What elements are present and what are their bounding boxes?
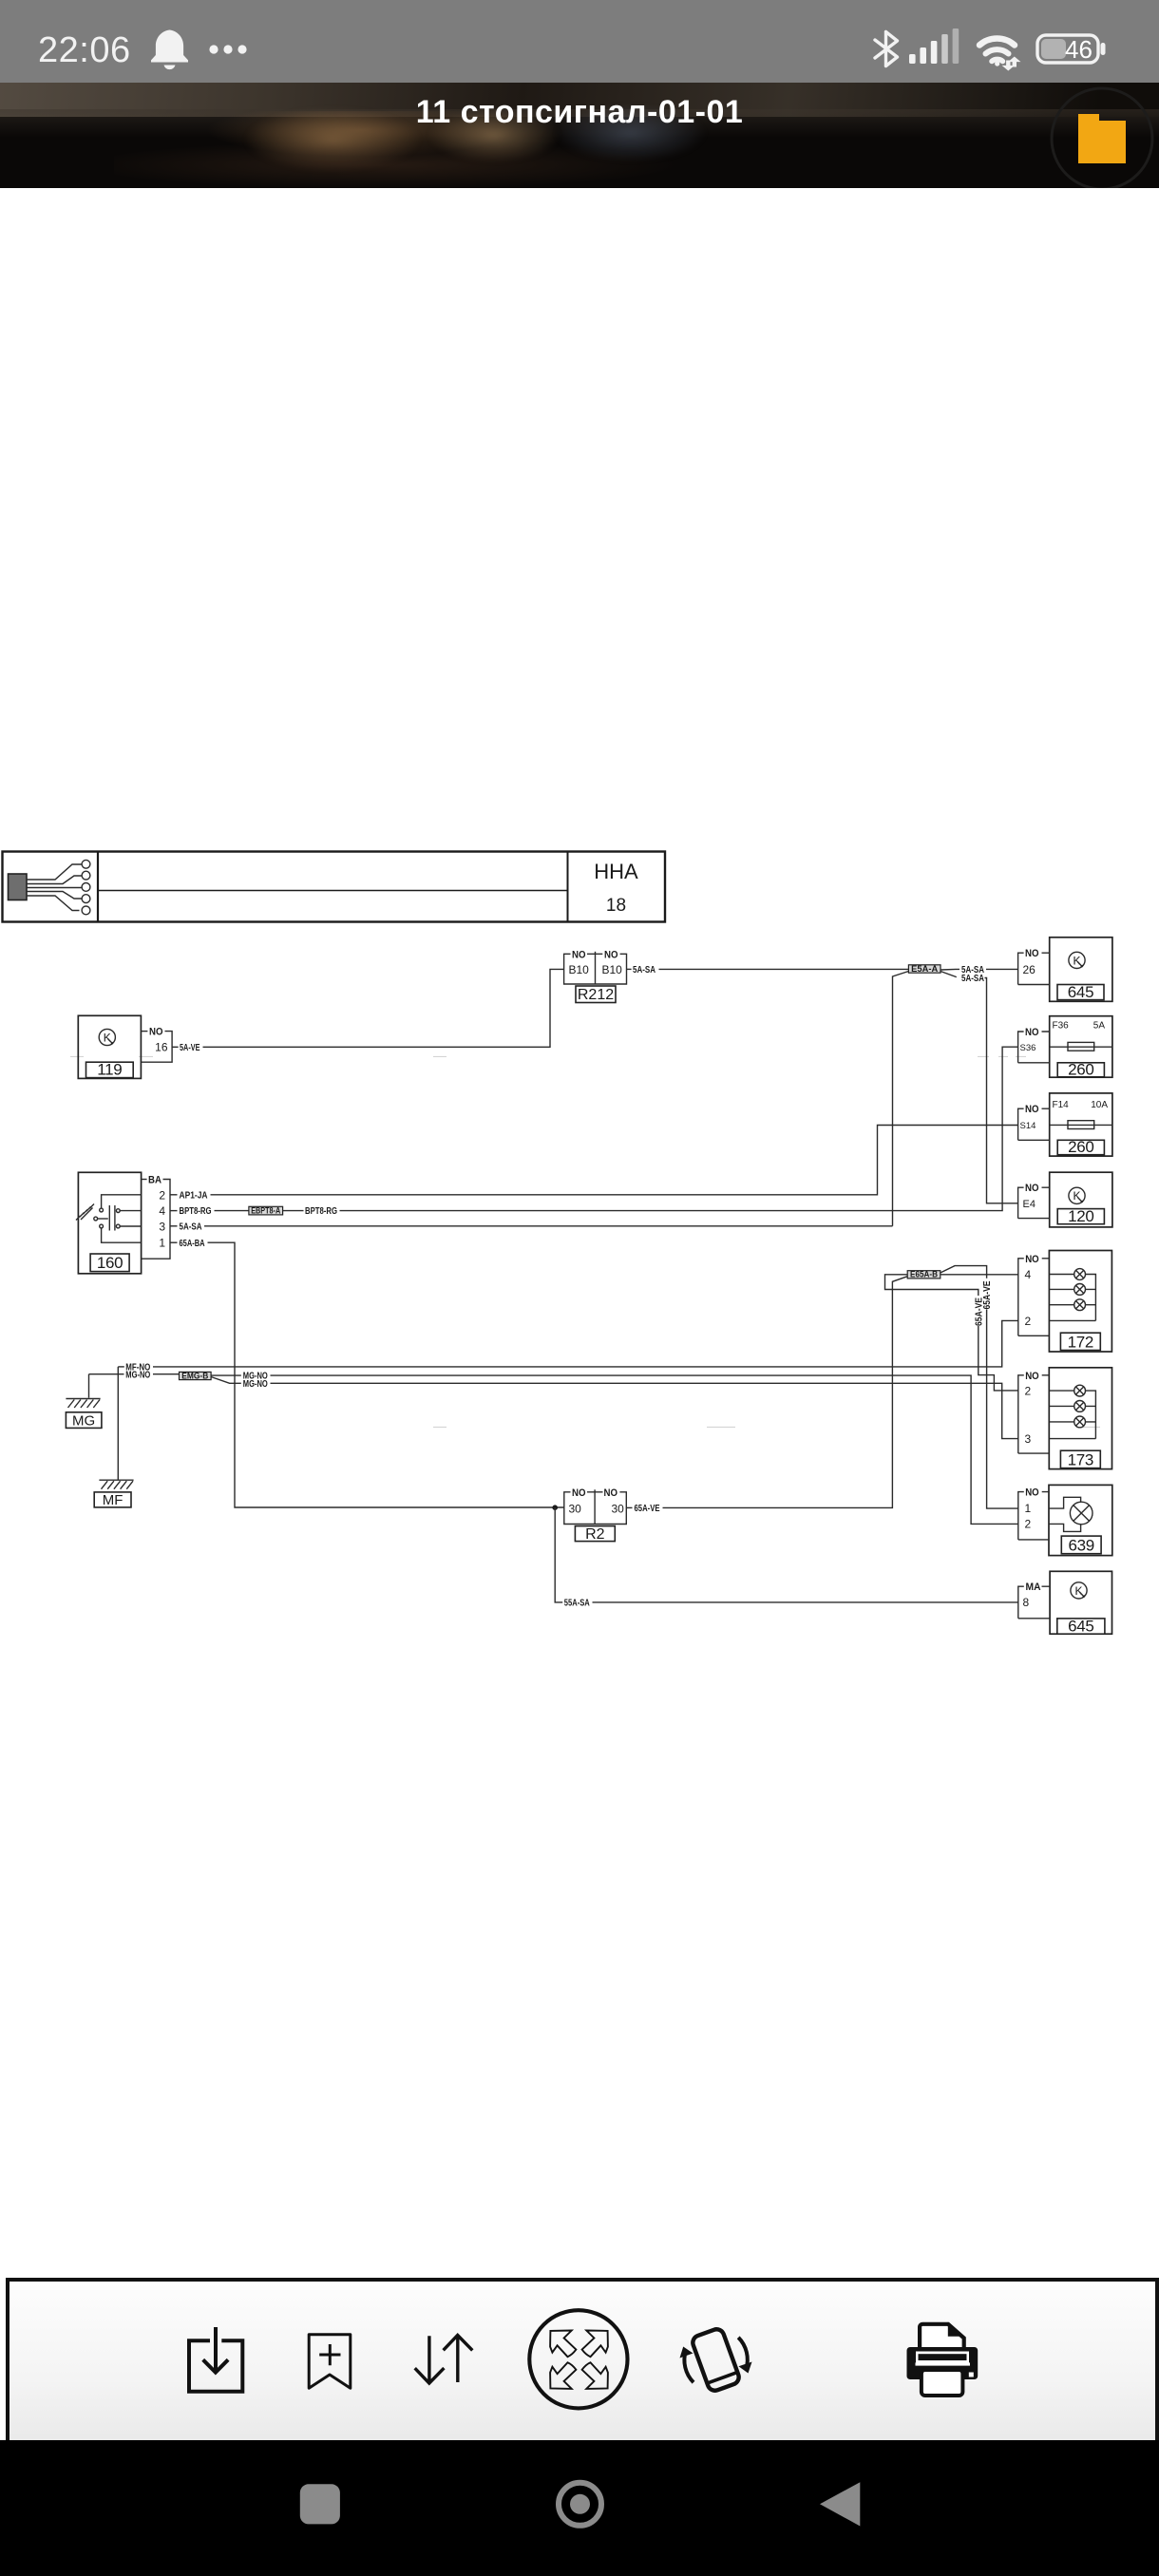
lamp symbol	[1049, 1497, 1081, 1508]
svg-text:MG: MG	[72, 1412, 95, 1429]
svg-text:3: 3	[1025, 1432, 1032, 1446]
connector bracket E4 of 120	[1018, 1183, 1050, 1218]
component 172 (rear lamp left)	[1049, 1251, 1111, 1353]
svg-text:EBPT8-A: EBPT8-A	[251, 1206, 280, 1216]
svg-text:K: K	[1073, 1189, 1080, 1203]
svg-text:5A-SA: 5A-SA	[961, 974, 984, 984]
lamp L2	[1074, 1284, 1086, 1296]
svg-text:NO: NO	[1025, 1254, 1039, 1265]
svg-text:K: K	[1073, 954, 1080, 967]
svg-text:NO: NO	[1025, 1104, 1039, 1115]
svg-text:E5A-A: E5A-A	[911, 964, 939, 974]
svg-text:K: K	[1074, 1584, 1082, 1598]
connector bracket of 172	[1018, 1254, 1050, 1336]
download icon	[189, 2327, 242, 2392]
connector bracket pin 16 of 119	[141, 1027, 172, 1063]
svg-text:3: 3	[159, 1220, 165, 1233]
svg-text:645: 645	[1068, 1618, 1093, 1636]
svg-text:S36: S36	[1020, 1043, 1036, 1053]
svg-text:BPT8-RG: BPT8-RG	[180, 1206, 212, 1217]
svg-text:BPT8-RG: BPT8-RG	[305, 1206, 337, 1217]
svg-text:R212: R212	[578, 987, 614, 1003]
wire 5A-SA splice down-left to 160 pin3	[893, 972, 909, 1226]
lamp L3	[1074, 1299, 1086, 1311]
wire 5A-SA 160 pin3 to splice E5A-A	[170, 1222, 893, 1232]
svg-text:AP1-JA: AP1-JA	[180, 1190, 208, 1201]
svg-text:65A-VE: 65A-VE	[635, 1504, 660, 1514]
svg-text:HHA: HHA	[594, 860, 638, 883]
svg-text:K: K	[104, 1031, 111, 1044]
svg-text:30: 30	[569, 1503, 582, 1516]
wire 65A-VE splice to 173 pin2	[885, 1275, 1018, 1391]
component 173 (rear lamp right)	[1049, 1368, 1111, 1469]
wire 5A-SA from R212 to splice E5A-A	[627, 965, 909, 975]
ground MG	[66, 1374, 102, 1430]
svg-text:65A-VE: 65A-VE	[974, 1297, 984, 1326]
wifi	[979, 39, 1015, 66]
svg-text:F36: F36	[1053, 1020, 1070, 1031]
svg-text:B10: B10	[602, 963, 623, 976]
component 160 (stop lamp switch)	[76, 1172, 142, 1274]
lamp L1	[1074, 1269, 1086, 1280]
wire splice E65A-B to 172 pin4	[940, 1274, 1018, 1276]
svg-text:E65A-B: E65A-B	[910, 1270, 938, 1279]
header with car photo background	[0, 83, 1159, 188]
toolbar	[6, 2278, 1159, 2448]
connector bracket pin 8 of 645	[1018, 1582, 1050, 1619]
svg-text:NO: NO	[1025, 1027, 1039, 1038]
wire MG-NO splice to 173 pin3	[211, 1377, 1018, 1439]
wire BPT8-RG splice to fuse S36	[283, 1047, 1018, 1217]
fuse F14 element	[1050, 1124, 1112, 1126]
wire 5A-SA splice down to 120 pinE4	[940, 972, 1018, 1203]
sort arrows icon	[415, 2335, 473, 2383]
svg-text:10A: 10A	[1091, 1100, 1108, 1110]
fuse holder 260 (fuse F14 10A)	[1050, 1093, 1112, 1156]
splice EBPT8-A	[249, 1206, 283, 1216]
svg-text:65A-BA: 65A-BA	[180, 1239, 205, 1249]
faint page fold marks	[70, 1056, 1100, 1427]
lamp L1	[1074, 1385, 1086, 1396]
svg-text:4: 4	[1025, 1268, 1032, 1281]
component 119 (instrument panel)	[78, 1015, 141, 1078]
svg-text:NO: NO	[1025, 1371, 1039, 1382]
svg-text:B10: B10	[569, 963, 590, 976]
svg-text:4: 4	[159, 1204, 165, 1218]
svg-text:645: 645	[1068, 983, 1093, 1001]
svg-text:260: 260	[1068, 1138, 1093, 1156]
svg-text:BA: BA	[148, 1175, 161, 1186]
svg-text:120: 120	[1068, 1207, 1093, 1225]
svg-text:NO: NO	[1025, 948, 1039, 959]
bluetooth	[875, 32, 898, 66]
svg-text:119: 119	[97, 1061, 122, 1079]
svg-text:5A-SA: 5A-SA	[180, 1222, 202, 1232]
svg-text:NO: NO	[1025, 1183, 1039, 1194]
svg-text:18: 18	[606, 896, 626, 916]
svg-text:5A: 5A	[1093, 1020, 1106, 1031]
svg-text:R2: R2	[585, 1526, 605, 1543]
junction node on R2 feed	[552, 1505, 558, 1510]
svg-text:NO: NO	[604, 1487, 618, 1499]
svg-text:NO: NO	[572, 949, 586, 960]
wire BPT8-RG 160 pin4 to splice EBPT8-A	[170, 1206, 249, 1217]
fuse F36 element	[1050, 1046, 1112, 1048]
status bar	[0, 0, 1159, 83]
svg-text:26: 26	[1023, 963, 1036, 976]
svg-text:173: 173	[1068, 1450, 1093, 1468]
svg-text:F14: F14	[1053, 1100, 1070, 1110]
svg-text:NO: NO	[572, 1487, 586, 1499]
splice E5A-A	[908, 964, 940, 974]
svg-text:NO: NO	[604, 949, 618, 960]
wire MG-NO splice to 639 pin2	[211, 1372, 1018, 1525]
harness connector symbol	[9, 860, 90, 914]
svg-text:1: 1	[159, 1237, 165, 1250]
svg-text:160: 160	[97, 1254, 123, 1272]
wire AP1-JA 160 pin2 to fuse S14	[170, 1126, 1018, 1202]
bookmark plus icon	[309, 2335, 351, 2389]
svg-text:260: 260	[1068, 1060, 1093, 1078]
svg-text:8: 8	[1023, 1596, 1030, 1609]
title block frame	[3, 852, 666, 922]
svg-text:2: 2	[1025, 1384, 1032, 1397]
wire 5A-SA splice to 645 pin26	[940, 965, 1018, 975]
svg-text:172: 172	[1068, 1333, 1093, 1351]
svg-text:1: 1	[1025, 1502, 1032, 1515]
svg-text:MG-NO: MG-NO	[243, 1379, 268, 1390]
wire MF-NO from MF ground to 172 pin2	[118, 1320, 1017, 1373]
svg-text:2: 2	[159, 1188, 165, 1202]
switch anchor hatching	[81, 1208, 93, 1221]
svg-text:16: 16	[155, 1041, 168, 1054]
battery	[1037, 35, 1106, 64]
relay R212	[564, 949, 627, 1003]
connector bracket of 173	[1018, 1371, 1050, 1453]
nav bar	[0, 2440, 1159, 2576]
lamp L3	[1074, 1416, 1086, 1428]
svg-text:EMG-B: EMG-B	[181, 1371, 208, 1380]
component 639 (high level brake lamp)	[1049, 1485, 1112, 1555]
svg-text:E4: E4	[1023, 1199, 1035, 1210]
svg-text:NO: NO	[149, 1027, 163, 1038]
svg-text:NO: NO	[1025, 1487, 1039, 1499]
bell icon	[151, 29, 188, 62]
splice EMG-B	[180, 1371, 212, 1380]
expand icon	[529, 2310, 627, 2408]
svg-text:30: 30	[612, 1503, 625, 1516]
svg-text:S14: S14	[1020, 1121, 1036, 1131]
folder button	[1040, 83, 1159, 188]
svg-text:5A-SA: 5A-SA	[633, 965, 655, 975]
svg-text:MA: MA	[1026, 1582, 1041, 1593]
wire 5A-VE from 119 pin16 to R212	[172, 969, 563, 1053]
connector bracket S36 of 260	[1018, 1027, 1050, 1063]
print icon	[907, 2322, 978, 2396]
wire 65A-VE splice to 639 pin1	[940, 1266, 1018, 1509]
connector bracket S14 of 260	[1018, 1104, 1050, 1140]
wire 55A-SA from R2 node to 645 pin8	[555, 1507, 1018, 1608]
relay R2	[564, 1487, 627, 1543]
lamp L2	[1074, 1401, 1086, 1412]
connector bracket pin 26 of 645	[1018, 948, 1050, 984]
svg-text:2: 2	[1025, 1315, 1032, 1328]
connector bracket BA of 160	[142, 1175, 170, 1260]
fuse holder 260 (fuse F36 5A)	[1050, 1016, 1112, 1079]
ground MF	[94, 1367, 133, 1508]
svg-text:639: 639	[1068, 1536, 1093, 1554]
component 120 (diagnostic socket)	[1050, 1172, 1112, 1227]
component 645 (UCH unit, bottom)	[1050, 1571, 1111, 1635]
svg-text:MG-NO: MG-NO	[125, 1370, 150, 1380]
wire MG-NO from MG ground to splice EMG-B	[89, 1370, 180, 1380]
wire 65A-BA 160 pin1 to relay R2	[170, 1239, 564, 1507]
component 645 (UCH unit, top)	[1050, 938, 1112, 1002]
wire 65A-VE from R2 to splice E65A-B	[626, 1276, 908, 1514]
connector bracket of 639	[1018, 1487, 1049, 1540]
svg-text:5A-VE: 5A-VE	[180, 1043, 200, 1053]
svg-text:2: 2	[1025, 1518, 1032, 1531]
signal bars	[909, 28, 959, 64]
svg-text:55A-SA: 55A-SA	[564, 1599, 590, 1609]
splice E65A-B	[907, 1270, 940, 1279]
svg-text:MF: MF	[103, 1492, 123, 1508]
rotate icon	[684, 2327, 747, 2393]
